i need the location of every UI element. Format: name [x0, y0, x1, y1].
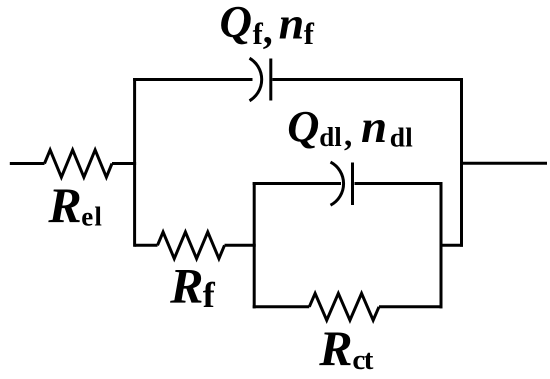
svg-text:Q: Q	[220, 0, 253, 47]
label R_ct	[318, 320, 373, 376]
wire right output	[460, 162, 547, 165]
svg-text:R: R	[318, 320, 352, 376]
node A vertical wire (outer parallel left side)	[133, 78, 136, 247]
svg-text:n: n	[279, 0, 305, 48]
capacitor Q_f curved plate (CPE)	[250, 58, 262, 101]
wire bottom rail from node A	[135, 244, 158, 247]
wire connector inner box to outer right vertical	[440, 244, 464, 247]
svg-text:dl: dl	[390, 122, 413, 153]
svg-text:ct: ct	[352, 344, 373, 376]
svg-text:f: f	[304, 17, 315, 51]
wire inner top rail left	[253, 182, 341, 185]
wire inner bottom rail left	[253, 305, 310, 308]
svg-text:n: n	[361, 101, 387, 153]
wire inner box right vertical	[440, 182, 443, 308]
wire R_f to inner box	[225, 244, 256, 247]
svg-text:R: R	[169, 258, 203, 314]
wire top rail right	[272, 78, 463, 81]
svg-text:el: el	[81, 201, 103, 231]
capacitor Q_dl curved plate (CPE)	[331, 162, 344, 205]
svg-text:,: ,	[263, 7, 273, 52]
svg-text:Q: Q	[287, 101, 319, 151]
resistor R_el	[45, 150, 113, 177]
wire inner bottom rail right	[379, 305, 443, 308]
svg-text:,: ,	[344, 117, 352, 153]
label R_f	[169, 258, 216, 315]
capacitor Q_f straight plate	[269, 59, 272, 101]
svg-text:R: R	[47, 177, 81, 233]
svg-text:f: f	[203, 275, 216, 315]
label R_el	[47, 177, 103, 233]
wire top rail left	[133, 78, 252, 81]
label Q_dl, n_dl	[287, 101, 413, 154]
wire left input stub	[10, 162, 45, 165]
resistor R_f	[158, 232, 225, 259]
svg-text:dl: dl	[319, 122, 342, 152]
wire inner box left vertical	[253, 182, 256, 308]
label Q_f, n_f	[220, 0, 315, 52]
wire inner top rail right	[355, 182, 443, 185]
wire outer right vertical	[460, 78, 463, 247]
capacitor Q_dl straight plate	[351, 163, 354, 206]
resistor R_ct	[309, 293, 379, 320]
wire R_el to node A	[112, 162, 136, 165]
